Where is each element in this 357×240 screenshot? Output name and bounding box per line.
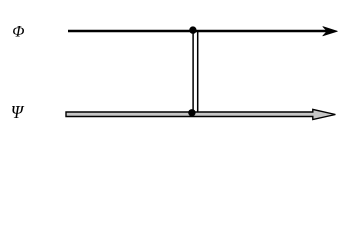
arrowhead Phi (323, 27, 337, 36)
block arrow Psi (66, 109, 335, 119)
junction dot bottom (188, 109, 195, 116)
wire vertical double line left (192, 30, 194, 113)
svg-text:Φ: Φ (12, 23, 24, 40)
wire vertical double line right (197, 31, 199, 113)
svg-text:Ψ: Ψ (11, 102, 25, 122)
wire Phi horizontal line (68, 30, 330, 33)
junction dot top (189, 26, 196, 33)
